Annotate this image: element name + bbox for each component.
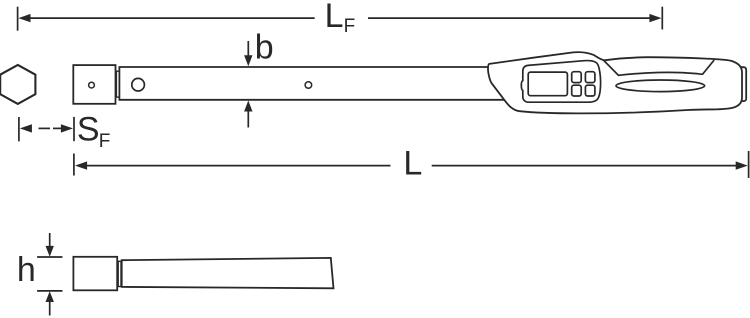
- svg-text:h: h: [17, 251, 36, 289]
- pin hole in square drive: [89, 82, 95, 88]
- handle grip oval: [616, 80, 705, 92]
- hex insert tool hexagon: [0, 65, 35, 104]
- dimension b: upper arrowhead pointing down: [244, 55, 252, 66]
- svg-text:L: L: [403, 144, 422, 182]
- svg-text:L: L: [325, 0, 344, 35]
- shaft hole small: [305, 82, 312, 89]
- dimension L_F: right arrowhead: [649, 14, 661, 22]
- dimension S_F: right stem: [53, 127, 62, 129]
- dimension S_F: left extension tick: [18, 117, 20, 141]
- button bottom-right: [585, 85, 595, 96]
- handle end cap button: [736, 67, 747, 101]
- dimension S_F: middle dash: [39, 127, 51, 129]
- dimension b: lower arrowhead pointing up: [244, 101, 252, 112]
- dimension h: upper extension tick: [37, 256, 62, 258]
- dimension L: right line segment: [432, 165, 738, 167]
- dimension h: upper arrowhead pointing down: [46, 246, 54, 257]
- dimension L_F: right extension tick: [661, 7, 663, 30]
- svg-text:b: b: [255, 29, 274, 67]
- display screen: [528, 72, 567, 96]
- handle head outline: [488, 52, 742, 113]
- handle top facet line: [604, 60, 714, 75]
- side view square block: [73, 257, 117, 291]
- dimension L_F: left extension tick: [17, 7, 19, 31]
- side view step collar: [118, 261, 121, 286]
- step collar between square and shaft: [116, 71, 119, 97]
- svg-text:F: F: [344, 16, 356, 37]
- button top-right: [585, 72, 595, 83]
- dimension S_F: right arrowhead pointing right: [61, 124, 73, 132]
- dimension b: lower arrow stem: [247, 111, 249, 128]
- dimension S_F: left arrowhead pointing left: [20, 124, 32, 132]
- square drive body (top view): [73, 65, 115, 104]
- button bottom-left: [572, 85, 582, 96]
- dimension L: left line segment: [87, 165, 391, 167]
- display bezel: [521, 61, 600, 103]
- wrench shaft outline (left edge, top edge, bottom edge): [119, 67, 504, 100]
- dimension h: lower extension tick: [37, 290, 62, 292]
- svg-text:S: S: [77, 111, 100, 149]
- dimension L: left extension tick: [73, 154, 75, 176]
- dimension h: upper arrow stem: [49, 233, 51, 248]
- dimension L: right arrowhead: [736, 161, 748, 169]
- side view tapered beam: [122, 258, 334, 288]
- dimension b: upper arrow stem: [247, 41, 249, 56]
- dimension h: lower arrowhead pointing up: [46, 291, 54, 302]
- dimension S_F: right extension tick: [73, 117, 75, 141]
- svg-text:F: F: [99, 131, 111, 152]
- dimension L_F: right line segment: [368, 17, 651, 19]
- shaft hole large: [132, 78, 145, 91]
- dimension L: right extension tick: [748, 151, 750, 178]
- button top-left: [572, 72, 582, 83]
- dimension L_F: left arrowhead: [18, 14, 30, 22]
- dimension h: lower arrow stem: [49, 302, 51, 316]
- dimension L: left arrowhead: [75, 161, 87, 169]
- dimension L_F: left line segment: [30, 17, 315, 19]
